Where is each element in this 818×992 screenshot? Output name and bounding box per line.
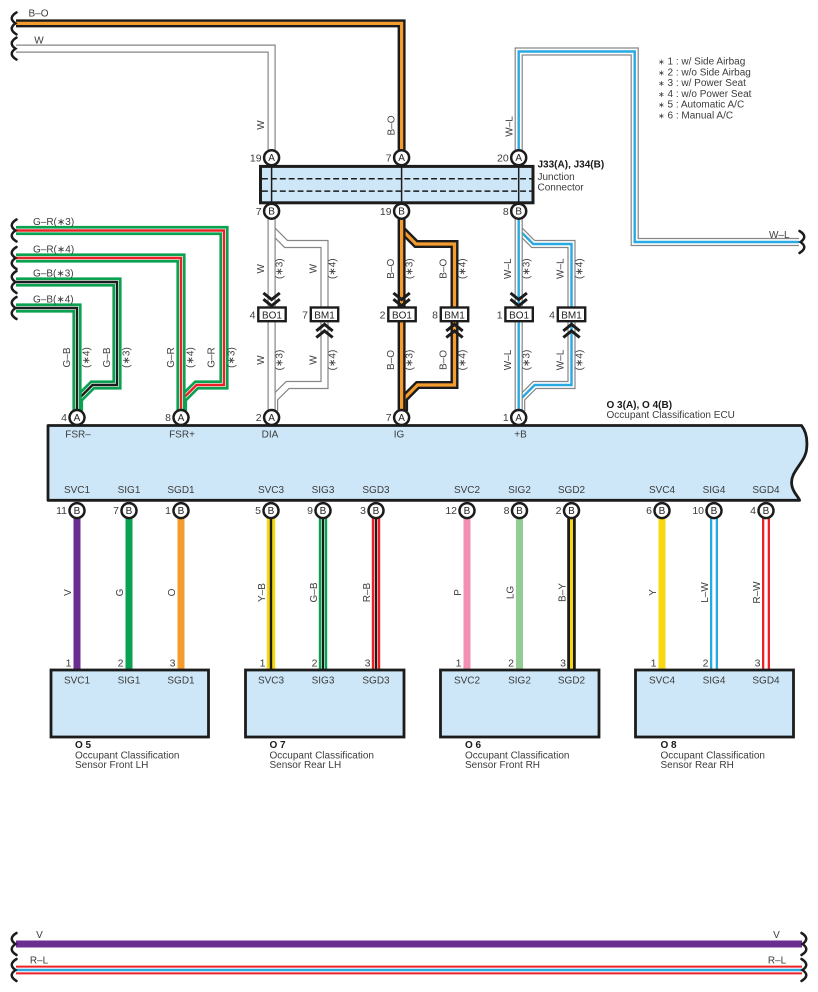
svg-text:7: 7	[386, 152, 392, 164]
svg-text:Junction: Junction	[538, 172, 575, 183]
svg-text:G: G	[115, 588, 126, 596]
svg-text:∗ 3 : w/ Power Seat: ∗ 3 : w/ Power Seat	[658, 78, 746, 89]
svg-text:R–L: R–L	[30, 956, 49, 967]
connector box BO1 pin 2	[388, 308, 415, 322]
svg-text:SIG1: SIG1	[118, 676, 141, 687]
harness brace R-L left	[12, 959, 17, 981]
svg-text:R–L: R–L	[768, 956, 787, 967]
wire B-O (*4) branch to BM1	[402, 230, 455, 308]
svg-text:B–O: B–O	[439, 350, 450, 370]
svg-text:9: 9	[307, 505, 313, 517]
svg-text:A: A	[178, 413, 185, 424]
svg-text:B–Y: B–Y	[557, 583, 568, 602]
svg-text:1: 1	[66, 658, 72, 670]
harness brace G-B(*4)	[12, 297, 17, 319]
svg-text:V: V	[36, 930, 43, 941]
svg-text:SGD2: SGD2	[558, 485, 586, 496]
wire B-O from harness to junction pin 7(A)	[16, 23, 402, 152]
svg-text:∗ 2 : w/o Side Airbag: ∗ 2 : w/o Side Airbag	[658, 67, 751, 78]
svg-text:1: 1	[651, 658, 657, 670]
Occupant Classification ECU box O3(A)/O4(B)	[48, 426, 807, 501]
svg-text:2: 2	[380, 309, 386, 321]
ECU top pin 7(A)	[394, 410, 409, 425]
svg-text:12: 12	[445, 505, 457, 517]
harness brace R-L right	[802, 959, 807, 981]
svg-text:V: V	[773, 930, 780, 941]
ECU bottom pin 2(B)	[564, 503, 579, 518]
svg-text:SGD3: SGD3	[362, 676, 390, 687]
wire B-O BO1 to ECU A pin (*3 main)	[398, 321, 406, 411]
wire G-B(*4) from harness to ECU FSR-	[16, 308, 77, 411]
wire B-O junction B to BO1 (*3 main)	[398, 218, 406, 308]
ECU bottom pin 4(B)	[759, 503, 774, 518]
svg-text:J33(A), J34(B): J33(A), J34(B)	[538, 160, 605, 171]
svg-text:V: V	[63, 589, 74, 596]
svg-text:3: 3	[560, 658, 566, 670]
svg-text:G–R: G–R	[207, 347, 218, 368]
junction top pin 7(A)	[394, 150, 409, 165]
wire B-O (*4) branch BM1 rejoin to ECU pin	[404, 321, 454, 411]
svg-text:Sensor Rear RH: Sensor Rear RH	[661, 760, 734, 771]
svg-text:W: W	[256, 120, 267, 130]
svg-text:19: 19	[250, 152, 262, 164]
svg-text:19: 19	[380, 206, 392, 218]
svg-text:4: 4	[549, 309, 555, 321]
junction bottom pin 8(B)	[511, 204, 526, 219]
svg-text:G–B: G–B	[62, 347, 73, 367]
svg-text:2: 2	[508, 658, 514, 670]
chevron arrows pointing down into BO1	[393, 293, 409, 306]
svg-text:A: A	[268, 413, 275, 424]
ECU top pin 4(A)	[70, 410, 85, 425]
svg-text:11: 11	[56, 505, 67, 517]
wire W-L (*4) branch BM1 rejoin to ECU pin	[521, 321, 571, 411]
svg-text:SVC3: SVC3	[258, 485, 285, 496]
wire G SIG1 ECU to sensor	[126, 512, 133, 670]
svg-text:SIG4: SIG4	[703, 485, 726, 496]
svg-text:Sensor Rear LH: Sensor Rear LH	[270, 760, 342, 771]
wire G-B(*3) from harness to ECU FSR- with jog	[16, 282, 117, 411]
svg-text:2: 2	[556, 505, 562, 517]
svg-text:SVC4: SVC4	[649, 676, 676, 687]
svg-text:7: 7	[256, 206, 262, 218]
ECU bottom pin 3(B)	[369, 503, 384, 518]
harness brace W	[12, 38, 17, 60]
svg-text:B: B	[763, 506, 770, 517]
svg-text:G–B: G–B	[309, 582, 320, 602]
svg-text:20: 20	[497, 152, 509, 164]
wire W-L junction B to BO1 (*3 main)	[515, 218, 523, 308]
svg-text:(∗4): (∗4)	[458, 258, 469, 279]
svg-text:O: O	[167, 588, 178, 596]
svg-text:(∗3): (∗3)	[522, 258, 533, 279]
svg-text:SGD3: SGD3	[362, 485, 390, 496]
svg-text:R–W: R–W	[752, 581, 763, 604]
svg-text:7: 7	[113, 505, 119, 517]
svg-text:W–L: W–L	[556, 349, 567, 370]
svg-text:SGD4: SGD4	[752, 485, 780, 496]
wire W-L (*4) branch to BM1	[519, 230, 572, 308]
svg-text:SVC2: SVC2	[454, 676, 481, 687]
svg-text:FSR+: FSR+	[169, 430, 195, 441]
wire R-W SGD4 ECU to sensor	[762, 512, 770, 670]
harness brace G-R(*3)	[12, 220, 17, 242]
svg-text:(∗3): (∗3)	[405, 350, 416, 371]
ECU bottom pin 9(B)	[316, 503, 331, 518]
svg-text:2: 2	[312, 658, 318, 670]
wire B-Y SGD2 ECU to sensor	[567, 512, 576, 670]
ECU bottom pin 10(B)	[707, 503, 722, 518]
svg-text:5: 5	[255, 505, 261, 517]
connector box BM1 pin 7	[311, 308, 338, 322]
svg-text:6: 6	[646, 505, 652, 517]
svg-text:(∗3): (∗3)	[275, 258, 286, 279]
svg-text:8: 8	[165, 412, 171, 424]
harness brace W-L right	[800, 231, 805, 253]
wire W (*4) branch BM1 rejoin to ECU pin	[274, 321, 324, 411]
svg-text:2: 2	[118, 658, 124, 670]
svg-text:8: 8	[504, 505, 510, 517]
junction connector column line	[518, 165, 520, 204]
svg-text:O 5: O 5	[75, 740, 92, 751]
svg-text:SIG3: SIG3	[312, 485, 335, 496]
svg-text:(∗4): (∗4)	[328, 258, 339, 279]
svg-text:SGD1: SGD1	[167, 676, 195, 687]
svg-text:10: 10	[692, 505, 704, 517]
junction bottom pin 7(B)	[264, 204, 279, 219]
svg-text:G–R(∗4): G–R(∗4)	[33, 245, 74, 256]
svg-text:B–O: B–O	[439, 258, 450, 278]
ECU top pin 8(A)	[174, 410, 189, 425]
svg-text:BO1: BO1	[262, 310, 282, 321]
svg-text:(∗3): (∗3)	[227, 347, 238, 368]
wire R-L bottom harness	[16, 966, 802, 975]
wire V SVC1 ECU to sensor	[74, 512, 81, 670]
chevron arrows pointing up into BM1	[446, 324, 462, 337]
svg-text:B: B	[74, 506, 81, 517]
svg-text:∗ 5 : Automatic A/C: ∗ 5 : Automatic A/C	[658, 100, 744, 111]
svg-text:W: W	[34, 36, 44, 47]
svg-text:W–L: W–L	[503, 258, 514, 279]
svg-text:Connector: Connector	[538, 183, 585, 194]
svg-text:3: 3	[360, 505, 366, 517]
wire G-R(*3) from harness to ECU FSR+ with jog	[16, 231, 224, 412]
svg-text:(∗4): (∗4)	[328, 350, 339, 371]
svg-text:G–R: G–R	[166, 347, 177, 368]
svg-text:B: B	[516, 506, 523, 517]
svg-text:Y: Y	[648, 589, 659, 596]
wire W (*4) branch to BM1	[272, 230, 325, 308]
connector box BO1 pin 4	[258, 308, 285, 322]
svg-text:B–O: B–O	[386, 350, 397, 370]
wire V bottom harness	[16, 941, 802, 948]
harness brace V right	[802, 933, 807, 955]
svg-text:2: 2	[703, 658, 709, 670]
ECU bottom pin 6(B)	[655, 503, 670, 518]
harness brace V left	[12, 933, 17, 955]
chevron arrows pointing down into BO1	[263, 293, 279, 306]
svg-text:P: P	[453, 589, 464, 596]
harness brace G-B(*3)	[12, 271, 17, 293]
svg-text:1: 1	[497, 309, 503, 321]
junction connector internal dashed line 1	[262, 178, 532, 180]
svg-text:1: 1	[503, 412, 509, 424]
svg-text:∗ 1 : w/ Side Airbag: ∗ 1 : w/ Side Airbag	[658, 57, 745, 68]
ECU top pin 1(A)	[511, 410, 526, 425]
svg-text:4: 4	[61, 412, 67, 424]
svg-text:A: A	[398, 413, 405, 424]
svg-text:SGD2: SGD2	[558, 676, 586, 687]
svg-text:O 7: O 7	[270, 740, 287, 751]
svg-text:B: B	[373, 506, 380, 517]
wire W-L from junction pin 20(A) up and around to right harness	[519, 52, 799, 243]
svg-text:B: B	[711, 506, 718, 517]
junction connector column line	[401, 165, 403, 204]
svg-text:SGD4: SGD4	[752, 676, 780, 687]
ECU bottom pin 5(B)	[264, 503, 279, 518]
svg-text:Sensor Front LH: Sensor Front LH	[75, 760, 148, 771]
junction top pin 20(A)	[511, 150, 526, 165]
svg-text:4: 4	[250, 309, 256, 321]
svg-text:B: B	[515, 207, 522, 218]
svg-text:B: B	[464, 506, 471, 517]
svg-text:W: W	[256, 263, 267, 273]
ECU top pin 2(A)	[264, 410, 279, 425]
svg-text:A: A	[515, 413, 522, 424]
svg-text:W: W	[256, 355, 267, 365]
occupant classification sensor box O 7	[246, 670, 405, 737]
svg-text:SIG2: SIG2	[508, 485, 531, 496]
ECU bottom pin 1(B)	[174, 503, 189, 518]
connector box BM1 pin 4	[558, 308, 585, 322]
svg-text:G–R(∗3): G–R(∗3)	[33, 217, 74, 228]
svg-text:W: W	[309, 355, 320, 365]
occupant classification sensor box O 5	[51, 670, 209, 737]
svg-text:1: 1	[456, 658, 462, 670]
svg-text:A: A	[515, 153, 522, 164]
svg-text:SIG1: SIG1	[118, 485, 141, 496]
svg-text:(∗3): (∗3)	[121, 347, 132, 368]
svg-text:B: B	[178, 506, 185, 517]
occupant classification sensor box O 8	[636, 670, 794, 737]
wire W-L BO1 to ECU A pin (*3 main)	[515, 321, 523, 411]
svg-text:A: A	[398, 153, 405, 164]
svg-text:8: 8	[503, 206, 509, 218]
svg-text:W–L: W–L	[503, 349, 514, 370]
svg-text:B: B	[268, 207, 275, 218]
svg-text:3: 3	[170, 658, 176, 670]
svg-text:SVC1: SVC1	[64, 485, 91, 496]
svg-text:SIG4: SIG4	[703, 676, 726, 687]
svg-text:B–O: B–O	[386, 258, 397, 278]
svg-text:LG: LG	[505, 586, 516, 600]
svg-text:SVC4: SVC4	[649, 485, 676, 496]
svg-text:8: 8	[432, 309, 438, 321]
wire W BO1 to ECU A pin (*3 main)	[268, 321, 276, 411]
svg-text:SVC2: SVC2	[454, 485, 481, 496]
svg-text:O 8: O 8	[661, 740, 678, 751]
junction connector column line	[271, 165, 273, 204]
svg-text:3: 3	[365, 658, 371, 670]
junction top pin 19(A)	[264, 150, 279, 165]
occupant classification sensor box O 6	[441, 670, 600, 737]
wire W junction B to BO1 (*3 main)	[268, 218, 276, 308]
wire L-W SIG4 ECU to sensor	[710, 512, 718, 670]
svg-text:3: 3	[755, 658, 761, 670]
wire Y SVC4 ECU to sensor	[659, 512, 666, 670]
svg-text:BM1: BM1	[314, 310, 335, 321]
wire Y-B SVC3 ECU to sensor	[267, 512, 275, 670]
svg-text:IG: IG	[394, 430, 405, 441]
svg-text:7: 7	[302, 309, 308, 321]
svg-text:Occupant Classification ECU: Occupant Classification ECU	[607, 410, 735, 421]
svg-text:B: B	[659, 506, 666, 517]
connector box BO1 pin 1	[505, 308, 532, 322]
svg-text:B: B	[126, 506, 133, 517]
svg-text:B: B	[268, 506, 275, 517]
svg-text:(∗4): (∗4)	[575, 350, 586, 371]
wire G-R(*4) from harness to ECU FSR+	[16, 258, 181, 411]
svg-text:Sensor Front RH: Sensor Front RH	[465, 760, 540, 771]
svg-text:G–B(∗3): G–B(∗3)	[33, 269, 74, 280]
chevron arrows pointing up into BM1	[563, 324, 579, 337]
svg-text:BM1: BM1	[444, 310, 465, 321]
wire G-B SIG3 ECU to sensor	[319, 512, 327, 670]
svg-text:1: 1	[165, 505, 171, 517]
svg-text:A: A	[74, 413, 81, 424]
chevron arrows pointing down into BO1	[511, 293, 527, 306]
svg-text:2: 2	[256, 412, 262, 424]
svg-text:(∗3): (∗3)	[405, 258, 416, 279]
svg-text:(∗3): (∗3)	[522, 350, 533, 371]
svg-text:O 6: O 6	[465, 740, 482, 751]
svg-text:(∗4): (∗4)	[185, 347, 196, 368]
svg-text:W–L: W–L	[556, 258, 567, 279]
svg-text:1: 1	[260, 658, 266, 670]
svg-text:SGD1: SGD1	[167, 485, 195, 496]
harness brace G-R(*4)	[12, 247, 17, 269]
svg-text:Y–B: Y–B	[257, 583, 268, 602]
svg-text:(∗4): (∗4)	[575, 258, 586, 279]
svg-text:L–W: L–W	[700, 582, 711, 603]
wire W from harness to junction pin 19(A)	[16, 49, 272, 152]
wire LG SIG2 ECU to sensor	[516, 512, 523, 670]
svg-text:(∗3): (∗3)	[275, 350, 286, 371]
svg-text:B–O: B–O	[28, 9, 48, 20]
svg-text:A: A	[268, 153, 275, 164]
ECU bottom pin 7(B)	[122, 503, 137, 518]
svg-text:(∗4): (∗4)	[458, 350, 469, 371]
harness brace B-O	[12, 12, 17, 34]
svg-text:(∗4): (∗4)	[81, 347, 92, 368]
connector box BM1 pin 8	[441, 308, 468, 322]
svg-text:B: B	[320, 506, 327, 517]
svg-text:4: 4	[750, 505, 756, 517]
ECU bottom pin 8(B)	[512, 503, 527, 518]
svg-text:W–L: W–L	[769, 230, 790, 241]
svg-text:∗ 6 : Manual A/C: ∗ 6 : Manual A/C	[658, 110, 733, 121]
svg-text:7: 7	[386, 412, 392, 424]
svg-text:SIG3: SIG3	[312, 676, 335, 687]
svg-text:G–B(∗4): G–B(∗4)	[33, 295, 74, 306]
svg-text:B–O: B–O	[387, 115, 398, 135]
svg-text:BM1: BM1	[561, 310, 582, 321]
svg-text:W: W	[309, 263, 320, 273]
wire P SVC2 ECU to sensor	[464, 512, 471, 670]
svg-text:SVC1: SVC1	[64, 676, 91, 687]
ECU bottom pin 11(B)	[70, 503, 85, 518]
svg-text:FSR–: FSR–	[65, 430, 91, 441]
svg-text:SIG2: SIG2	[508, 676, 531, 687]
wire O SGD1 ECU to sensor	[178, 512, 185, 670]
svg-text:DIA: DIA	[262, 430, 279, 441]
junction bottom pin 19(B)	[394, 204, 409, 219]
svg-text:BO1: BO1	[509, 310, 529, 321]
ECU bottom pin 12(B)	[460, 503, 475, 518]
wire R-B SGD3 ECU to sensor	[372, 512, 380, 670]
svg-text:BO1: BO1	[392, 310, 412, 321]
svg-text:+B: +B	[514, 430, 527, 441]
junction connector internal dashed line 2	[262, 190, 532, 192]
svg-text:R–B: R–B	[362, 582, 373, 602]
chevron arrows pointing up into BM1	[316, 324, 332, 337]
svg-text:B: B	[568, 506, 575, 517]
svg-text:W–L: W–L	[505, 116, 516, 137]
svg-text:B: B	[398, 207, 405, 218]
svg-text:SVC3: SVC3	[258, 676, 285, 687]
svg-text:G–B: G–B	[102, 347, 113, 367]
svg-text:∗ 4 : w/o Power Seat: ∗ 4 : w/o Power Seat	[658, 89, 752, 100]
junction connector J33/J34 box	[261, 166, 534, 202]
